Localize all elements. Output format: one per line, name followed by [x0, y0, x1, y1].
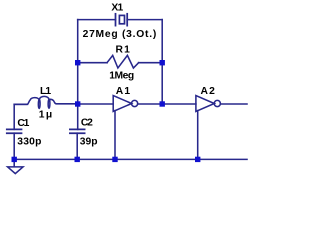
node: A2 ground pin junction — [195, 157, 200, 162]
inverter A1 triangle — [113, 96, 131, 112]
inverter A2 triangle — [196, 96, 214, 112]
svg-text:39p: 39p — [80, 137, 98, 148]
ground symbol triangle — [8, 167, 23, 174]
wire: right vertical branch (crystal to A1 output node) — [161, 20, 163, 104]
svg-text:A2: A2 — [201, 86, 217, 97]
svg-text:1μ: 1μ — [39, 110, 54, 121]
inverter A2 bubble — [214, 100, 220, 106]
capacitor C1 bottom plate — [7, 132, 22, 134]
node: C2 bottom junction — [75, 157, 80, 162]
wire: A2 ground pin — [197, 111, 199, 160]
crystal X1 right plate — [126, 14, 128, 26]
wire: crystal row left segment — [78, 19, 116, 21]
svg-text:R1: R1 — [116, 44, 132, 55]
wire: A1 output to A2 input — [138, 103, 196, 105]
node: A1 output junction — [160, 101, 165, 106]
svg-text:1Meg: 1Meg — [109, 71, 134, 82]
svg-text:C1: C1 — [17, 118, 29, 129]
svg-text:330p: 330p — [17, 137, 41, 148]
node: ground junction — [12, 157, 17, 162]
node: main node (L1/C2/A1 input) — [75, 101, 80, 106]
node: A1 ground pin junction — [112, 157, 117, 162]
wire: C2 lead — [77, 104, 79, 129]
wire: bottom ground rail — [14, 158, 247, 160]
wire: C1 top corner + top lead — [14, 104, 27, 129]
svg-text:27Meg (3.Ot.): 27Meg (3.Ot.) — [83, 29, 157, 40]
capacitor C2 bottom plate — [70, 132, 85, 134]
wire: C1 bottom lead — [13, 133, 15, 159]
ground symbol stub — [13, 159, 15, 166]
svg-text:A1: A1 — [116, 86, 132, 97]
resistor R1 zigzag — [107, 55, 139, 68]
crystal X1 body box — [119, 15, 124, 23]
node: R1 right junction — [160, 60, 165, 65]
wire: R1 left lead — [78, 62, 107, 64]
wire: R1 right lead — [139, 62, 163, 64]
wire: A2 output — [220, 103, 247, 105]
wire: C2 bottom lead — [76, 133, 78, 159]
wire: left vertical branch (crystal to main node) — [77, 20, 79, 104]
svg-text:X1: X1 — [111, 3, 123, 14]
node: R1 left junction — [75, 60, 80, 65]
svg-text:C2: C2 — [81, 117, 93, 128]
wire: crystal row right segment — [127, 19, 162, 21]
wire: A1 ground pin — [114, 111, 116, 160]
capacitor C2 top plate — [70, 128, 85, 130]
capacitor C1 top plate — [7, 128, 22, 130]
wire: A1 input — [78, 103, 114, 105]
inductor L1 — [14, 96, 77, 108]
svg-text:L1: L1 — [40, 86, 51, 97]
crystal X1 left plate — [115, 14, 117, 26]
inverter A1 bubble — [132, 100, 138, 106]
